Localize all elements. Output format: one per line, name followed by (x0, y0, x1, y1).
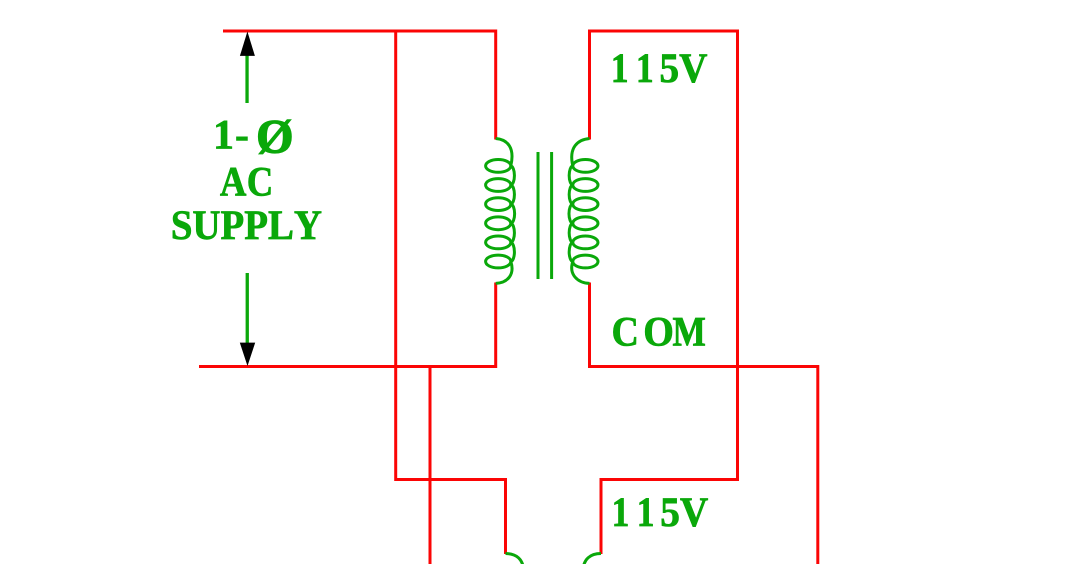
wire: branch at x=430 from supply bottom line to bottom edge (429, 367, 432, 564)
arrow down shaft (246, 273, 249, 343)
transformer T1 core line 2 (550, 152, 553, 279)
label 115V top (614, 54, 707, 82)
label AC (220, 168, 270, 196)
wire: branch at x=396 down to y=479.5 then right and down to T2 primary top (396, 31, 506, 554)
label phase symbol (259, 120, 292, 154)
transformer T2 secondary winding (partial, bottom right) (583, 554, 601, 564)
wire: T1 secondary bottom (COM) right and down to bottom edge (590, 283, 818, 564)
label 1-phase (216, 121, 247, 149)
label SUPPLY (173, 211, 321, 239)
wire: top-left horizontal with drop to T1 primary top (223, 31, 496, 140)
arrow down head (240, 343, 255, 366)
transformer T1 primary winding loops (486, 160, 511, 173)
transformer T1 core line 1 (537, 152, 540, 279)
wire: T1 primary bottom down and left along supply bottom line (199, 283, 496, 367)
transformer T1 primary winding spine (496, 139, 512, 166)
transformer T2 primary winding (partial, bottom left) (506, 554, 524, 564)
arrow up shaft (245, 53, 248, 103)
transformer T1 secondary winding spine (572, 139, 590, 166)
wire: T1 secondary top up, across top-right, down right side, left at y=479.5, down to T2 secondary top (590, 31, 738, 554)
arrow up head (240, 32, 255, 56)
label COM (613, 318, 704, 346)
label 115V bottom (615, 498, 708, 526)
transformer T1 secondary winding loops (573, 160, 598, 173)
